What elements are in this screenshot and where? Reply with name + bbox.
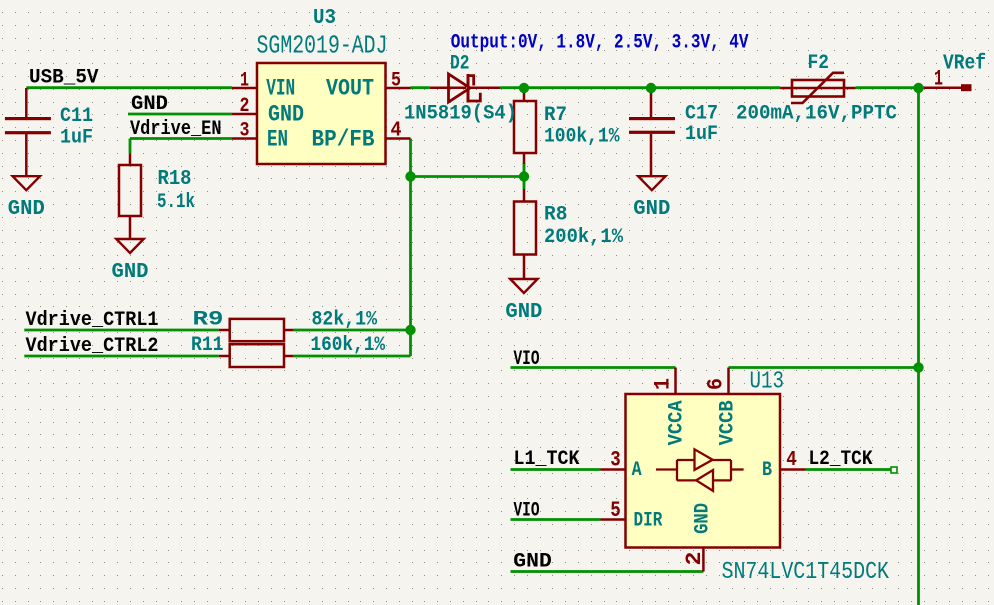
svg-text:USB_5V: USB_5V bbox=[29, 67, 99, 90]
svg-text:C11: C11 bbox=[60, 105, 93, 128]
svg-text:GND: GND bbox=[268, 101, 304, 128]
svg-text:VCCA: VCCA bbox=[665, 400, 688, 445]
svg-text:F2: F2 bbox=[808, 52, 830, 75]
svg-text:R11: R11 bbox=[191, 334, 224, 357]
svg-text:U3: U3 bbox=[313, 7, 336, 30]
svg-text:1uF: 1uF bbox=[60, 127, 93, 150]
svg-text:R18: R18 bbox=[158, 168, 192, 191]
svg-text:100k,1%: 100k,1% bbox=[544, 126, 620, 149]
svg-text:VOUT: VOUT bbox=[326, 76, 374, 103]
svg-text:GND: GND bbox=[8, 198, 45, 221]
svg-text:4: 4 bbox=[786, 449, 797, 472]
svg-text:160k,1%: 160k,1% bbox=[311, 334, 386, 357]
svg-text:Vdrive_CTRL1: Vdrive_CTRL1 bbox=[26, 309, 159, 332]
svg-text:5: 5 bbox=[391, 70, 401, 93]
svg-text:5: 5 bbox=[610, 498, 621, 523]
svg-text:VIN: VIN bbox=[266, 76, 295, 103]
svg-text:2: 2 bbox=[240, 95, 250, 118]
svg-text:1: 1 bbox=[651, 378, 676, 390]
svg-text:VIO: VIO bbox=[514, 348, 540, 371]
svg-text:VCCB: VCCB bbox=[716, 400, 739, 445]
svg-text:2: 2 bbox=[682, 552, 707, 566]
svg-text:SN74LVC1T45DCK: SN74LVC1T45DCK bbox=[722, 559, 890, 586]
svg-text:GND: GND bbox=[505, 301, 542, 324]
svg-text:GND: GND bbox=[131, 93, 168, 116]
svg-text:Output:0V, 1.8V, 2.5V, 3.3V, 4: Output:0V, 1.8V, 2.5V, 3.3V, 4V bbox=[451, 32, 749, 55]
svg-text:1N5819(S4): 1N5819(S4) bbox=[404, 103, 517, 126]
svg-text:L2_TCK: L2_TCK bbox=[809, 448, 873, 471]
svg-text:200mA,16V,PPTC: 200mA,16V,PPTC bbox=[736, 103, 897, 126]
svg-text:VIO: VIO bbox=[514, 500, 540, 523]
svg-text:U13: U13 bbox=[750, 369, 785, 396]
svg-text:R8: R8 bbox=[544, 204, 568, 227]
svg-text:SGM2019-ADJ: SGM2019-ADJ bbox=[257, 31, 388, 61]
svg-text:R9: R9 bbox=[193, 309, 224, 332]
svg-text:1uF: 1uF bbox=[685, 123, 718, 146]
svg-text:DIR: DIR bbox=[634, 510, 663, 533]
svg-text:GND: GND bbox=[513, 551, 552, 574]
svg-text:B: B bbox=[762, 459, 772, 482]
svg-text:D2: D2 bbox=[450, 53, 470, 76]
svg-text:1: 1 bbox=[934, 67, 943, 92]
svg-text:VRef: VRef bbox=[943, 53, 986, 76]
svg-text:EN: EN bbox=[267, 126, 288, 153]
svg-text:BP/FB: BP/FB bbox=[312, 126, 375, 153]
svg-text:200k,1%: 200k,1% bbox=[544, 226, 624, 249]
svg-text:L1_TCK: L1_TCK bbox=[514, 448, 580, 471]
svg-text:R7: R7 bbox=[544, 104, 567, 127]
svg-text:5.1k: 5.1k bbox=[157, 191, 195, 214]
svg-text:82k,1%: 82k,1% bbox=[312, 309, 378, 332]
svg-text:Vdrive_CTRL2: Vdrive_CTRL2 bbox=[26, 335, 159, 358]
svg-text:GND: GND bbox=[633, 198, 670, 221]
svg-text:1: 1 bbox=[240, 70, 249, 93]
svg-text:Vdrive_EN: Vdrive_EN bbox=[130, 118, 222, 141]
svg-text:3: 3 bbox=[240, 120, 250, 143]
svg-text:GND: GND bbox=[692, 503, 715, 534]
svg-text:6: 6 bbox=[704, 378, 729, 390]
svg-text:A: A bbox=[632, 459, 642, 482]
svg-text:GND: GND bbox=[112, 261, 149, 284]
svg-text:3: 3 bbox=[610, 448, 621, 473]
svg-text:4: 4 bbox=[391, 120, 402, 143]
